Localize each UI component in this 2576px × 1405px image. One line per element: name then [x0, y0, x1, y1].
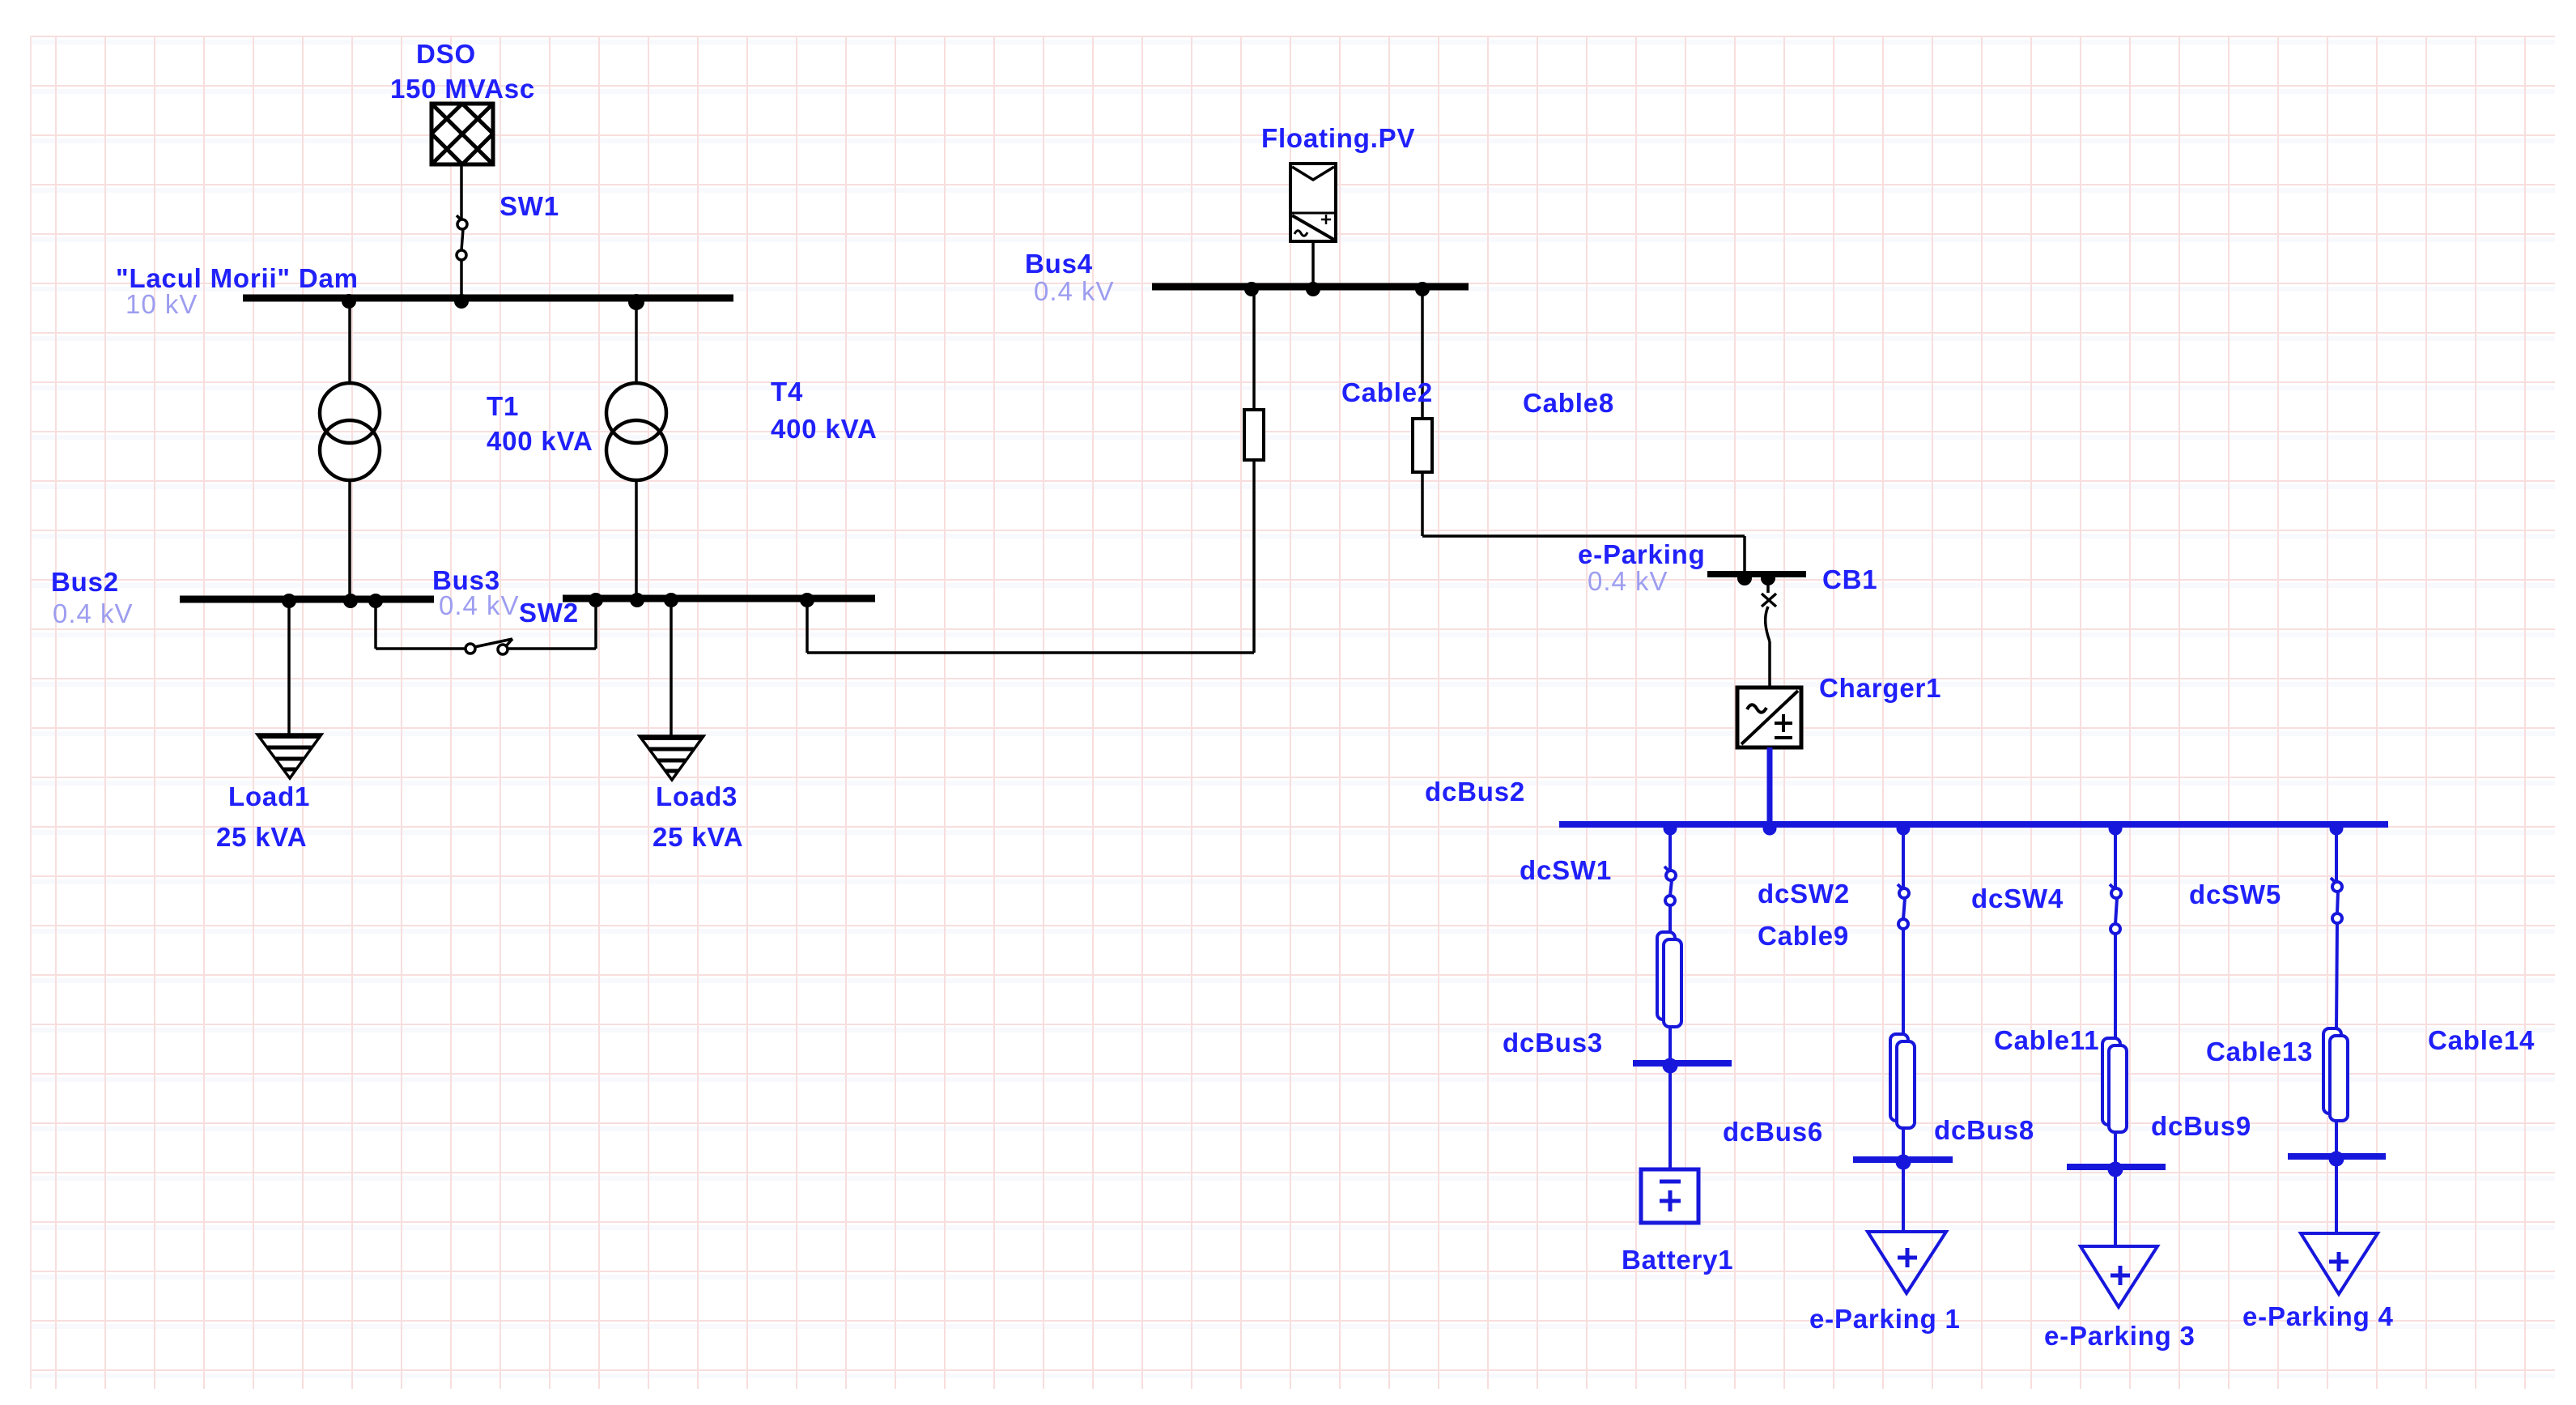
- svg-text:e-Parking 1: e-Parking 1: [1809, 1304, 1961, 1334]
- svg-text:e-Parking 3: e-Parking 3: [2044, 1321, 2196, 1351]
- svg-text:0.4 kV: 0.4 kV: [53, 598, 134, 628]
- svg-text:Cable2: Cable2: [1341, 377, 1433, 407]
- svg-text:Cable13: Cable13: [2206, 1037, 2313, 1067]
- svg-text:CB1: CB1: [1822, 564, 1877, 594]
- svg-text:Cable14: Cable14: [2428, 1025, 2535, 1055]
- svg-text:SW1: SW1: [499, 191, 559, 221]
- svg-text:Cable8: Cable8: [1523, 388, 1614, 418]
- svg-text:Load3: Load3: [656, 781, 738, 811]
- svg-text:Bus4: Bus4: [1025, 249, 1093, 279]
- svg-text:DSO: DSO: [416, 39, 476, 69]
- svg-text:Cable9: Cable9: [1758, 921, 1849, 951]
- svg-text:dcBus6: dcBus6: [1723, 1117, 1823, 1147]
- svg-text:0.4 kV: 0.4 kV: [1588, 566, 1668, 596]
- svg-text:Battery1: Battery1: [1622, 1245, 1733, 1275]
- svg-text:dcBus9: dcBus9: [2151, 1111, 2251, 1141]
- svg-text:25 kVA: 25 kVA: [216, 822, 307, 852]
- svg-text:Cable11: Cable11: [1994, 1025, 2099, 1055]
- svg-text:T1: T1: [487, 391, 519, 421]
- svg-text:dcBus2: dcBus2: [1425, 777, 1525, 807]
- svg-text:dcSW4: dcSW4: [1971, 883, 2064, 913]
- svg-text:150 MVAsc: 150 MVAsc: [390, 74, 535, 104]
- svg-text:Bus2: Bus2: [51, 567, 119, 597]
- svg-text:e-Parking: e-Parking: [1578, 539, 1706, 569]
- svg-text:dcSW5: dcSW5: [2189, 879, 2281, 909]
- svg-text:e-Parking 4: e-Parking 4: [2242, 1301, 2394, 1331]
- svg-text:400 kVA: 400 kVA: [487, 426, 593, 456]
- svg-text:dcSW2: dcSW2: [1758, 879, 1850, 909]
- svg-text:dcBus3: dcBus3: [1503, 1028, 1603, 1058]
- svg-text:25 kVA: 25 kVA: [653, 822, 743, 852]
- svg-text:T4: T4: [771, 377, 803, 407]
- svg-text:SW2: SW2: [519, 598, 579, 628]
- svg-text:0.4 kV: 0.4 kV: [439, 590, 520, 620]
- svg-text:dcSW1: dcSW1: [1520, 855, 1612, 885]
- svg-text:dcBus8: dcBus8: [1934, 1115, 2034, 1145]
- svg-text:0.4 kV: 0.4 kV: [1034, 276, 1115, 306]
- svg-text:Floating.PV: Floating.PV: [1261, 123, 1415, 153]
- svg-text:Load1: Load1: [228, 781, 310, 811]
- svg-text:10 kV: 10 kV: [125, 289, 198, 319]
- svg-text:400 kVA: 400 kVA: [771, 414, 878, 444]
- svg-text:Charger1: Charger1: [1819, 673, 1941, 703]
